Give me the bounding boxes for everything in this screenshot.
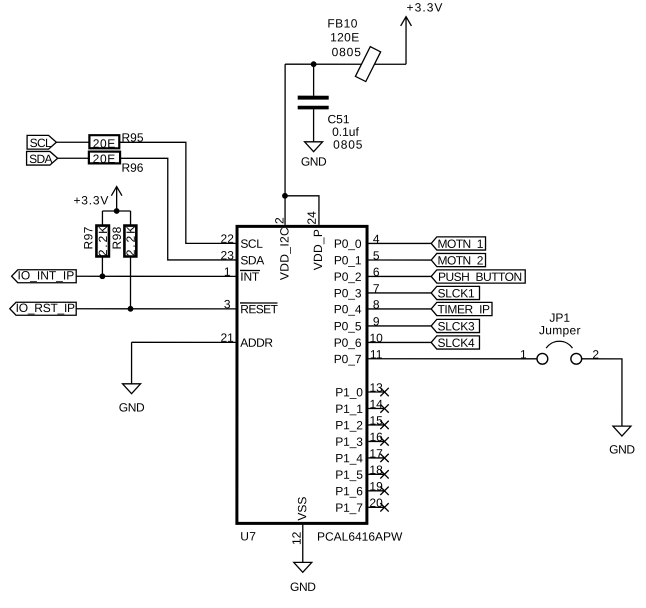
svg-text:2.2K: 2.2K — [124, 224, 138, 256]
svg-text:14: 14 — [369, 397, 383, 411]
svg-text:17: 17 — [369, 447, 383, 461]
svg-text:ADDR: ADDR — [240, 336, 273, 350]
svg-text:INT: INT — [240, 270, 260, 284]
svg-text:RESET: RESET — [240, 302, 278, 316]
svg-text:Jumper: Jumper — [539, 323, 581, 337]
svg-text:SLCK4: SLCK4 — [437, 336, 475, 350]
svg-text:10: 10 — [369, 331, 383, 345]
svg-text:VSS: VSS — [295, 497, 309, 521]
svg-text:P0_2: P0_2 — [334, 270, 362, 284]
svg-text:PCAL6416APW: PCAL6416APW — [317, 530, 403, 544]
svg-text:2.2K: 2.2K — [96, 224, 110, 256]
svg-text:GND: GND — [290, 580, 316, 594]
svg-text:24: 24 — [305, 211, 319, 225]
svg-text:18: 18 — [369, 463, 383, 477]
svg-text:SLCK1: SLCK1 — [438, 286, 476, 300]
svg-text:+3.3V: +3.3V — [407, 1, 444, 15]
svg-text:P1_7: P1_7 — [335, 501, 363, 515]
svg-text:23: 23 — [221, 248, 235, 262]
svg-text:+3.3V: +3.3V — [73, 193, 109, 207]
svg-text:8: 8 — [373, 298, 380, 312]
svg-text:11: 11 — [370, 347, 383, 361]
svg-text:U7: U7 — [240, 529, 256, 543]
svg-text:SLCK3: SLCK3 — [437, 319, 475, 333]
svg-text:R95: R95 — [121, 131, 143, 145]
svg-text:P0_0: P0_0 — [334, 237, 362, 251]
svg-text:P1_1: P1_1 — [335, 402, 363, 416]
svg-text:GND: GND — [301, 155, 327, 169]
svg-text:6: 6 — [373, 265, 380, 279]
svg-text:P1_6: P1_6 — [335, 484, 363, 498]
svg-text:P0_1: P0_1 — [334, 253, 362, 267]
svg-text:4: 4 — [373, 232, 380, 246]
svg-text:12: 12 — [290, 531, 304, 545]
svg-text:15: 15 — [369, 414, 383, 428]
svg-text:13: 13 — [369, 381, 383, 395]
svg-text:22: 22 — [221, 232, 235, 246]
svg-text:IO_RST_IP: IO_RST_IP — [16, 301, 75, 315]
svg-text:2: 2 — [272, 217, 286, 224]
svg-text:SCL: SCL — [30, 136, 52, 150]
svg-text:P0_5: P0_5 — [334, 319, 362, 333]
svg-text:R97: R97 — [81, 226, 95, 249]
svg-text:SDA: SDA — [240, 253, 264, 267]
svg-text:IO_INT_IP: IO_INT_IP — [18, 268, 75, 282]
svg-text:VDD_I2C: VDD_I2C — [278, 227, 292, 280]
svg-text:21: 21 — [220, 331, 234, 345]
svg-text:20: 20 — [369, 496, 383, 510]
svg-text:120E: 120E — [330, 30, 359, 44]
svg-text:2: 2 — [592, 347, 599, 361]
svg-text:0805: 0805 — [332, 45, 362, 59]
svg-text:1: 1 — [224, 265, 231, 279]
svg-text:FB10: FB10 — [327, 17, 357, 31]
svg-text:7: 7 — [373, 282, 380, 296]
svg-text:20E: 20E — [93, 137, 116, 151]
svg-text:GND: GND — [119, 400, 145, 414]
svg-text:R98: R98 — [110, 226, 124, 249]
svg-text:P1_2: P1_2 — [335, 418, 363, 432]
svg-text:P1_3: P1_3 — [335, 435, 363, 449]
svg-text:P1_5: P1_5 — [335, 468, 363, 482]
svg-text:SCL: SCL — [240, 237, 263, 251]
svg-text:VDD_P: VDD_P — [311, 229, 325, 271]
svg-text:P1_0: P1_0 — [335, 385, 363, 399]
svg-text:0805: 0805 — [333, 138, 363, 152]
svg-text:5: 5 — [373, 249, 380, 263]
svg-text:P0_3: P0_3 — [334, 286, 362, 300]
svg-text:R96: R96 — [121, 161, 143, 175]
svg-text:P0_7: P0_7 — [334, 352, 362, 366]
svg-text:P0_4: P0_4 — [334, 302, 362, 316]
svg-text:20E: 20E — [93, 152, 116, 166]
svg-text:1: 1 — [520, 347, 527, 361]
svg-text:9: 9 — [373, 315, 380, 329]
svg-text:19: 19 — [369, 479, 383, 493]
svg-text:MOTN_2: MOTN_2 — [438, 253, 484, 267]
svg-text:TIMER_IP: TIMER_IP — [437, 302, 490, 316]
svg-text:GND: GND — [609, 443, 635, 457]
svg-text:P1_4: P1_4 — [335, 451, 363, 465]
svg-text:PUSH_BUTTON: PUSH_BUTTON — [438, 270, 522, 284]
svg-text:SDA: SDA — [29, 152, 52, 166]
svg-text:16: 16 — [369, 430, 383, 444]
svg-text:P0_6: P0_6 — [334, 336, 362, 350]
svg-text:MOTN_1: MOTN_1 — [438, 237, 484, 251]
svg-text:3: 3 — [224, 297, 231, 311]
